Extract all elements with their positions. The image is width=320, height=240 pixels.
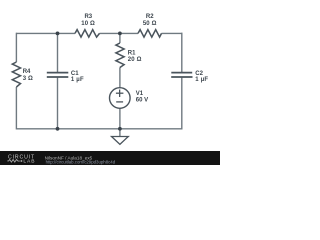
- capacitor C2: [171, 73, 192, 77]
- wire left upper segment: [15, 33, 17, 62]
- wire R1 branch top stub: [119, 33, 121, 43]
- node junction top R1: [118, 32, 122, 36]
- node junction top C1: [56, 32, 60, 36]
- resistor R4: [12, 62, 20, 87]
- wire top-left segment: [16, 32, 75, 34]
- wire C1 branch lower: [57, 78, 59, 129]
- watermark bar: [0, 151, 220, 165]
- svg-text:50 Ω: 50 Ω: [143, 21, 157, 27]
- resistor R3: [75, 30, 100, 37]
- resistor R1: [116, 43, 124, 68]
- svg-text:60 V: 60 V: [136, 98, 148, 104]
- svg-text:V1: V1: [136, 91, 144, 97]
- svg-text:R3: R3: [84, 14, 92, 20]
- wire C1 branch upper: [57, 33, 59, 72]
- svg-text:http://circuitlab.com/c29pd3up: http://circuitlab.com/c29pd3uph8c4d: [46, 160, 116, 165]
- node junction bottom gnd: [118, 127, 122, 131]
- wire top-middle segment: [100, 32, 139, 34]
- wire right lower segment: [181, 78, 183, 130]
- svg-text:LAB: LAB: [23, 159, 35, 165]
- svg-text:R1: R1: [128, 50, 136, 56]
- svg-text:R4: R4: [23, 69, 31, 75]
- svg-text:3 Ω: 3 Ω: [23, 76, 33, 82]
- wire V1 to bottom: [119, 108, 121, 128]
- resistor R2: [138, 30, 162, 37]
- wire R1 to V1: [119, 68, 121, 88]
- logo LAB: [21, 160, 23, 162]
- wire left lower segment: [15, 87, 17, 130]
- svg-text:1 µF: 1 µF: [195, 77, 208, 83]
- logo zigzag: [7, 160, 19, 163]
- wire top-right segment: [162, 32, 183, 34]
- svg-text:10 Ω: 10 Ω: [81, 21, 95, 27]
- voltage source V1: [110, 88, 131, 109]
- svg-text:R2: R2: [146, 14, 154, 20]
- wire ground stub: [119, 129, 121, 137]
- node junction bottom C1: [56, 127, 60, 131]
- ground: [112, 137, 129, 145]
- wire bottom: [16, 128, 181, 130]
- svg-text:1 µF: 1 µF: [71, 77, 84, 83]
- wire right upper segment: [181, 33, 183, 72]
- svg-text:20 Ω: 20 Ω: [128, 57, 142, 63]
- capacitor C1: [47, 73, 69, 77]
